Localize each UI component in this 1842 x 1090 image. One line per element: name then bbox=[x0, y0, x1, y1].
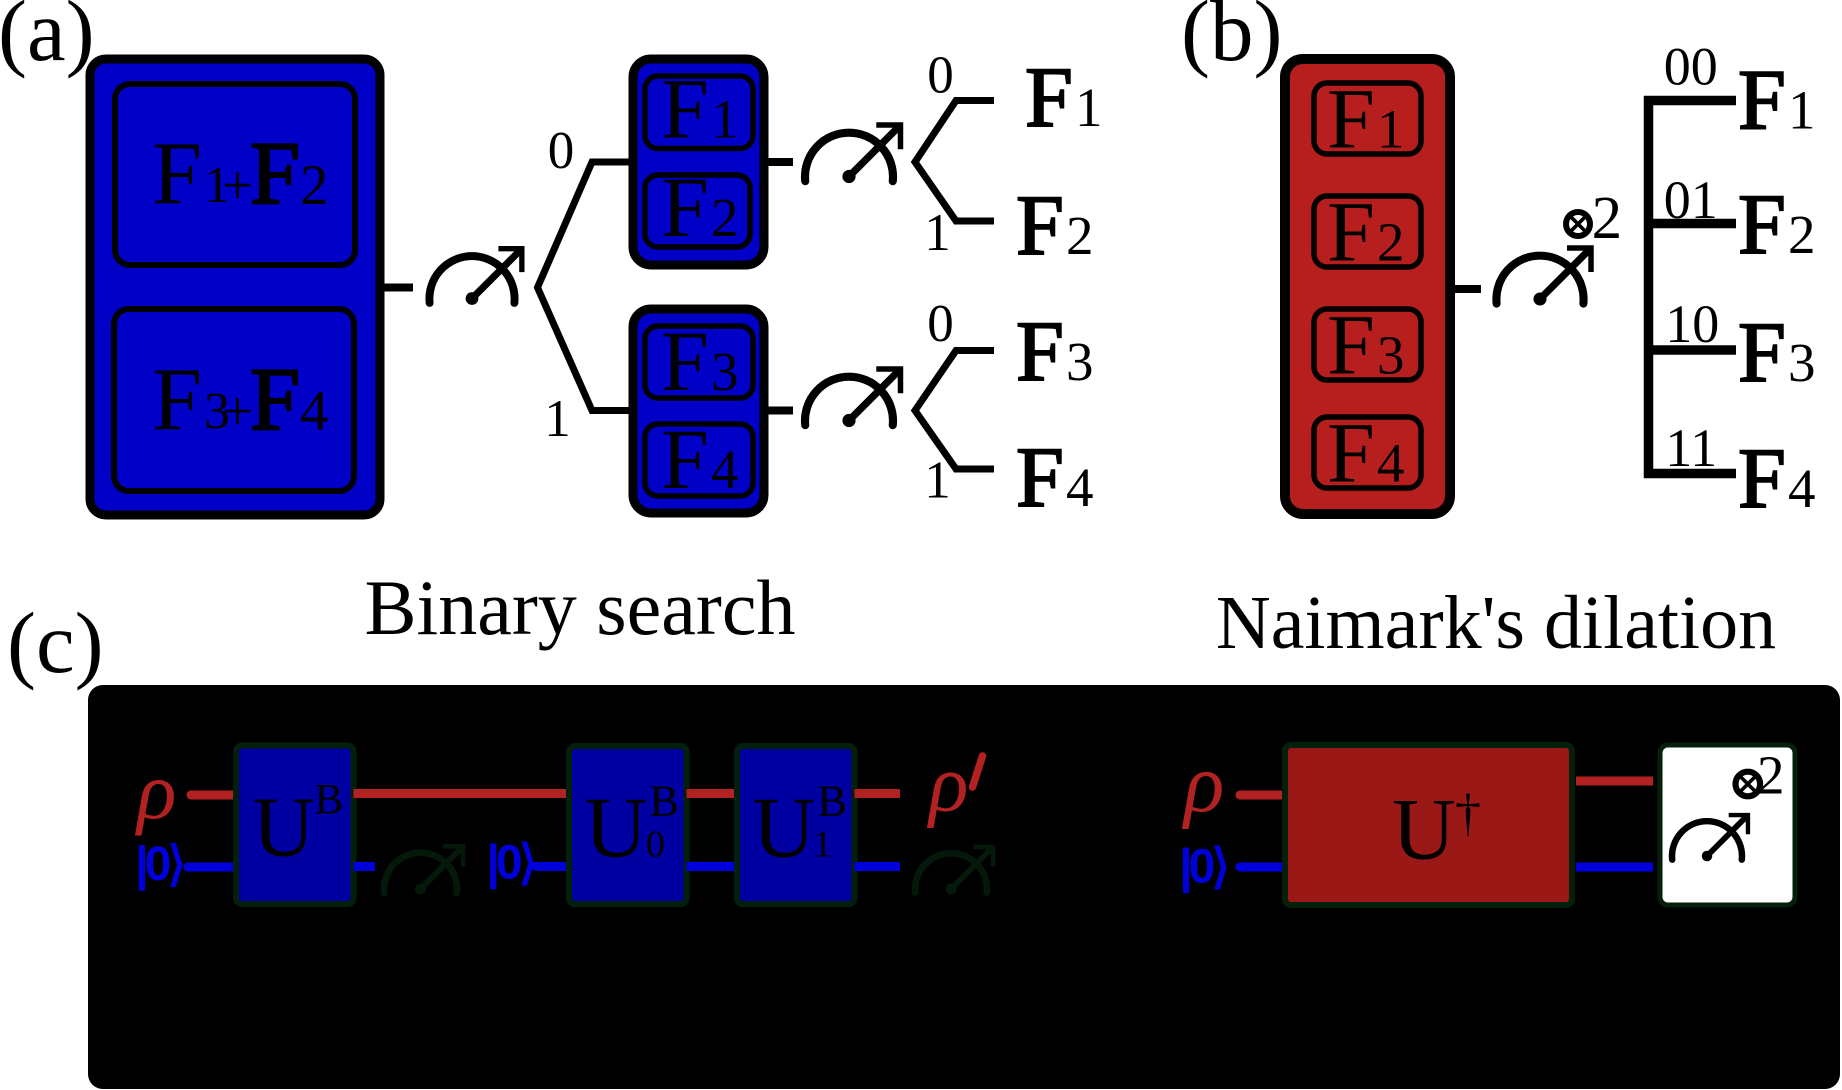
svg-text:(c): (c) bbox=[7, 594, 104, 691]
svg-text:Naimark's dilation: Naimark's dilation bbox=[1216, 581, 1776, 665]
inner box F2 bbox=[645, 175, 750, 247]
measurement gauge a3 bbox=[805, 369, 900, 427]
branch bracket bottom bbox=[915, 351, 994, 470]
svg-text:0: 0 bbox=[927, 47, 954, 105]
inner box F1 bbox=[1314, 83, 1421, 154]
svg-text:1: 1 bbox=[924, 204, 951, 262]
svg-text:(b): (b) bbox=[1181, 0, 1282, 79]
wire red long bbox=[354, 789, 570, 798]
wire blue stub bbox=[354, 862, 376, 871]
svg-text:1: 1 bbox=[813, 824, 832, 866]
inner box F3 bbox=[645, 326, 753, 398]
black circuit panel bbox=[88, 685, 1840, 1089]
svg-text:01: 01 bbox=[1664, 170, 1718, 230]
svg-text:1: 1 bbox=[924, 452, 951, 510]
measurement gauge c2 (dark) bbox=[915, 847, 993, 895]
POVM box F1+F2 / F3+F4 bbox=[90, 59, 380, 515]
svg-text:U: U bbox=[1392, 782, 1456, 879]
branch 01 bbox=[1644, 219, 1736, 229]
svg-text:B: B bbox=[818, 777, 847, 826]
svg-text:|0⟩: |0⟩ bbox=[1179, 841, 1227, 894]
wire ket0 mid bbox=[536, 862, 570, 871]
wire blue mid bbox=[687, 862, 739, 871]
svg-text:00: 00 bbox=[1664, 36, 1718, 96]
otimes 2 label white bbox=[1736, 772, 1761, 797]
wire into gauge a3 bbox=[764, 407, 793, 415]
branch 00 bbox=[1644, 96, 1736, 106]
gate U dagger bbox=[1285, 745, 1572, 905]
measurement gauge c1 (dark) bbox=[384, 846, 463, 894]
box F3/F4 bbox=[633, 309, 764, 513]
wire blue out right bbox=[1576, 863, 1653, 872]
gate U0^B bbox=[569, 746, 687, 904]
wire ket0 in bbox=[188, 863, 238, 872]
wire from POVM box bbox=[384, 284, 413, 292]
prime mark bbox=[973, 756, 983, 787]
svg-text:1: 1 bbox=[544, 390, 571, 448]
box F1/F2 bbox=[633, 59, 764, 265]
white measurement box bbox=[1660, 745, 1795, 905]
wire rho in right bbox=[1240, 791, 1283, 800]
svg-text:ρ: ρ bbox=[1181, 737, 1224, 830]
svg-text:U: U bbox=[253, 779, 315, 875]
inner box F1+F2 bbox=[115, 84, 355, 265]
tree trunk bbox=[1644, 96, 1654, 478]
measurement gauge white bbox=[1672, 815, 1748, 861]
svg-text:2: 2 bbox=[1757, 745, 1785, 806]
svg-text:0: 0 bbox=[927, 295, 954, 353]
branch bracket main bbox=[538, 162, 633, 411]
svg-text:2: 2 bbox=[1592, 185, 1623, 252]
measurement gauge a1 bbox=[429, 249, 521, 305]
inner box F4 bbox=[1314, 417, 1421, 488]
svg-text:11: 11 bbox=[1665, 418, 1717, 478]
branch 11 bbox=[1644, 469, 1736, 479]
inner box F3 bbox=[1314, 309, 1421, 380]
wire from box b bbox=[1453, 285, 1481, 293]
inner box F4 bbox=[645, 424, 753, 496]
measurement gauge b bbox=[1496, 248, 1591, 306]
wire into gauge a2 bbox=[764, 158, 793, 166]
svg-text:†: † bbox=[1455, 785, 1481, 842]
wire red out bbox=[855, 789, 901, 798]
wire ket0 in right bbox=[1240, 863, 1283, 872]
svg-text:B: B bbox=[315, 777, 344, 824]
svg-text:B: B bbox=[650, 777, 679, 826]
svg-text:|0⟩: |0⟩ bbox=[135, 838, 183, 891]
wire red mid bbox=[687, 789, 739, 798]
inner box F1 bbox=[645, 76, 753, 149]
measurement gauge a2 bbox=[805, 125, 900, 183]
gate U1^B bbox=[737, 746, 855, 904]
svg-text:Binary search: Binary search bbox=[365, 564, 796, 651]
wire blue out bbox=[855, 862, 901, 871]
svg-text:0: 0 bbox=[646, 824, 665, 866]
inner box F2 bbox=[1314, 196, 1421, 267]
gate U^B bbox=[236, 746, 354, 905]
branch 10 bbox=[1644, 345, 1736, 355]
otimes 2 label bbox=[1566, 212, 1590, 236]
svg-text:|0⟩: |0⟩ bbox=[487, 837, 535, 890]
inner box F3+F4 bbox=[114, 309, 354, 491]
svg-text:ρ: ρ bbox=[134, 745, 176, 836]
svg-text:U: U bbox=[585, 779, 648, 876]
svg-text:10: 10 bbox=[1665, 294, 1719, 354]
wire red out right bbox=[1576, 777, 1653, 786]
svg-text:ρ: ρ bbox=[926, 738, 968, 829]
svg-text:0: 0 bbox=[548, 122, 575, 180]
wire rho in bbox=[191, 791, 238, 800]
POVM box b bbox=[1285, 59, 1450, 514]
branch bracket top bbox=[915, 101, 994, 222]
svg-text:(a): (a) bbox=[0, 0, 95, 79]
svg-text:U: U bbox=[753, 779, 816, 876]
